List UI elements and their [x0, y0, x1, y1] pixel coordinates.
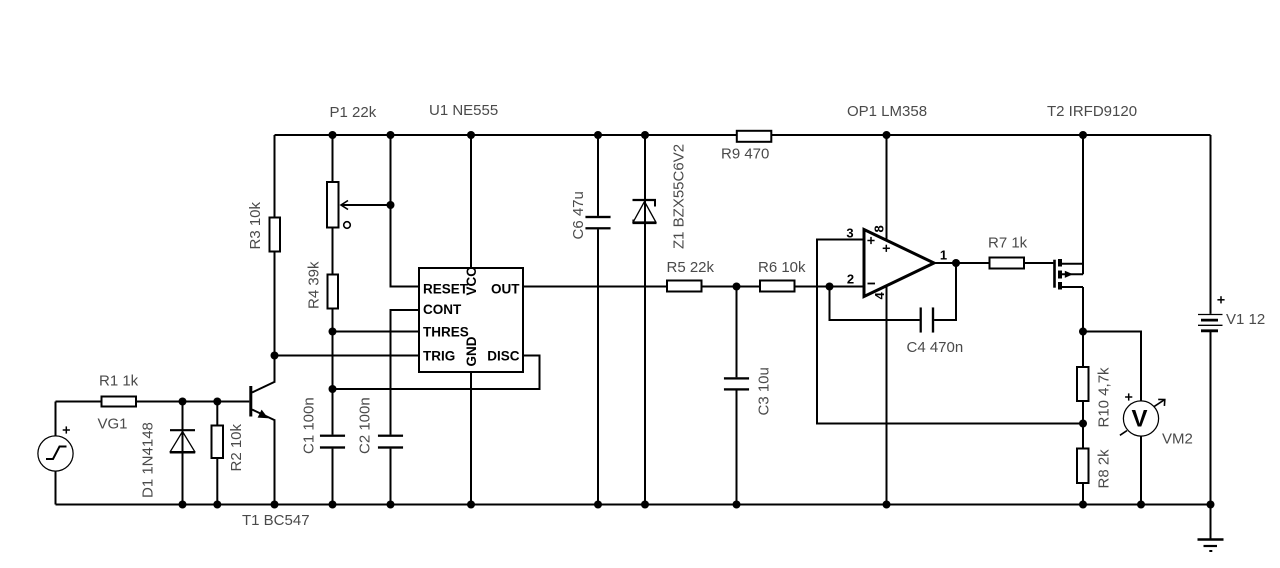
wire: top rail right segment (V+ net) [772, 134, 1211, 136]
svg-text:THRES: THRES [423, 325, 469, 340]
wire: Z1 column [644, 135, 646, 505]
resistor R4 [328, 275, 339, 309]
wire: R3 bottom to T1 collector, TRIG tap [274, 252, 276, 382]
svg-text:D1 1N4148: D1 1N4148 [140, 422, 157, 498]
junction VCC / rail [467, 131, 475, 139]
wire: P1 top to rail [332, 135, 334, 182]
wire: VCC pin to rail [470, 135, 472, 268]
wire: VG1 to R1 [56, 401, 102, 403]
svg-text:R4 39k: R4 39k [306, 261, 323, 309]
svg-text:C1 100n: C1 100n [301, 397, 318, 454]
wire: bottom rail (ground net) [56, 504, 1211, 506]
wire: op-amp supply column pin8/pin4 [886, 135, 888, 505]
capacitor C2 [378, 435, 403, 437]
wire: battery bottom stem [1210, 332, 1212, 505]
capacitor C4 [920, 308, 922, 333]
potentiometer P1 [327, 182, 339, 228]
svg-text:1: 1 [940, 248, 947, 263]
wire: ground stem [1210, 505, 1212, 540]
wire: P1 wiper line [342, 204, 391, 206]
capacitor C1 [320, 435, 345, 437]
svg-text:R5 22k: R5 22k [667, 259, 715, 276]
junction C1 / ground rail [329, 501, 337, 509]
svg-text:R2 10k: R2 10k [228, 423, 245, 471]
wire: C4 to output node [934, 263, 956, 320]
junction T1 emitter / ground rail [271, 501, 279, 509]
wire: RESET column from rail [391, 135, 420, 287]
svg-text:VG1: VG1 [98, 416, 128, 433]
wire: C3 vertical bottom [736, 390, 738, 505]
junction R10 / R8 / divider tap [1079, 420, 1087, 428]
junction wiper / RESET column [387, 201, 395, 209]
junction pin2 / feedback [826, 283, 834, 291]
zener diode Z1 [633, 199, 657, 201]
wire: GND pin to ground rail [470, 372, 472, 505]
wire: feedback from pin 2 through C4 [830, 287, 920, 321]
resistor R2 [212, 426, 224, 459]
wire: non-inverting input to divider tap [817, 240, 1083, 424]
svg-text:R10 4,7k: R10 4,7k [1096, 367, 1113, 428]
junction C2 / ground rail [387, 501, 395, 509]
junction output / feedback [952, 259, 960, 267]
svg-text:R6 10k: R6 10k [758, 259, 806, 276]
voltage source VG1 [38, 436, 73, 471]
svg-text:DISC: DISC [487, 349, 520, 364]
voltmeter VM2 [1123, 401, 1158, 436]
capacitor C6 [586, 216, 611, 218]
wire: R10 to R8 node [1082, 402, 1084, 449]
junction op-amp supply / rail [883, 131, 891, 139]
svg-text:C6 47u: C6 47u [570, 191, 587, 239]
wire: op-amp output to R7 [934, 262, 989, 264]
junction P1 top / rail [329, 131, 337, 139]
svg-text:2: 2 [847, 272, 854, 287]
transistor T2 IRFD9120 [1053, 260, 1056, 288]
wire: T2 source to rail [1082, 135, 1084, 274]
junction T2 source / rail [1079, 131, 1087, 139]
junction C3 / ground rail [733, 501, 741, 509]
ground [1198, 538, 1224, 541]
junction THRES / R4 [329, 328, 337, 336]
wire: T1 emitter to ground rail [274, 421, 276, 505]
wire: D1 branch vertical [182, 402, 184, 505]
wire: C3 vertical top [736, 287, 738, 378]
wire: C2 bottom to ground rail [390, 449, 392, 505]
svg-text:V: V [1131, 406, 1147, 433]
wire: R3 top to rail [274, 135, 276, 217]
resistor R9 [737, 131, 772, 142]
svg-text:VM2: VM2 [1162, 431, 1193, 448]
svg-text:OP1 LM358: OP1 LM358 [847, 103, 927, 120]
P1 wiper arrow [341, 201, 348, 210]
wire: VG1 bottom stem [55, 471, 57, 505]
svg-text:T1 BC547: T1 BC547 [242, 512, 310, 529]
junction C6 / rail [594, 131, 602, 139]
wire: T2 drain down to divider [1082, 287, 1084, 367]
svg-text:Z1 BZX55C6V2: Z1 BZX55C6V2 [671, 144, 688, 249]
svg-text:RESET: RESET [423, 282, 469, 297]
P1 rotation marker [344, 222, 351, 229]
transistor T1 BC547 [249, 386, 252, 417]
junction C6 / ground rail [594, 501, 602, 509]
svg-text:4: 4 [872, 292, 887, 300]
wire: battery top stem [1210, 135, 1212, 314]
svg-text:R3 10k: R3 10k [247, 201, 264, 249]
junction battery / ground rail [1207, 501, 1215, 509]
junction D1 / ground rail [179, 501, 187, 509]
op-amp OP1 LM358 [864, 230, 934, 297]
wire: C6 column top [597, 135, 599, 216]
svg-text:R9 470: R9 470 [721, 146, 769, 163]
battery V1 [1198, 314, 1223, 316]
resistor R3 [270, 218, 281, 252]
junction D1 / base wire [179, 398, 187, 406]
junction Z1 / ground rail [641, 501, 649, 509]
junction op-amp pin4 / ground rail [883, 501, 891, 509]
wire: CONT line down to C2 [391, 310, 420, 435]
diode D1 [170, 429, 195, 431]
junction R8 / ground rail [1079, 501, 1087, 509]
wire: C6 column bottom [597, 229, 599, 504]
svg-text:C3 10u: C3 10u [756, 367, 773, 415]
wire: R7 to T2 gate [1025, 262, 1053, 264]
svg-text:R7 1k: R7 1k [988, 235, 1028, 252]
svg-text:R8 2k: R8 2k [1096, 449, 1113, 489]
wire: R8 to ground rail [1082, 484, 1084, 505]
junction VM2 / ground rail [1137, 501, 1145, 509]
wire: R4 to THRES/DISC/C1 column [332, 309, 334, 435]
svg-text:TRIG: TRIG [423, 349, 455, 364]
svg-text:OUT: OUT [491, 282, 520, 297]
op-amp plus input marker [867, 240, 874, 242]
wire: drain node to VM2 [1083, 332, 1141, 402]
wire: P1 to R4 [332, 228, 334, 274]
wire: VG1 top stem [55, 402, 57, 437]
svg-text:P1 22k: P1 22k [330, 104, 377, 121]
wire: R6 to op-amp inverting input [795, 286, 864, 288]
junction DISC / C1 [329, 385, 337, 393]
junction Z1 / rail [641, 131, 649, 139]
wire: VM2 to ground rail [1140, 436, 1142, 505]
wire: C1 bottom to ground rail [332, 449, 334, 505]
svg-text:3: 3 [846, 226, 853, 241]
IC U1 NE555 body [419, 268, 523, 372]
wire: OUT pin to R5 [523, 286, 667, 288]
resistor R10 [1077, 367, 1089, 401]
wire: THRES line [333, 331, 420, 333]
resistor R6 [760, 281, 795, 292]
svg-text:C4 470n: C4 470n [907, 339, 964, 356]
svg-text:GND: GND [464, 336, 479, 366]
junction R5 / R6 / C3 [733, 283, 741, 291]
svg-text:C2 100n: C2 100n [357, 397, 374, 454]
wire: top rail left segment (VCC 6V2 net) [275, 134, 737, 136]
wire: TRIG line [275, 355, 420, 357]
junction GND pin / ground rail [467, 501, 475, 509]
wire: R2 branch vertical [216, 402, 218, 426]
wire: DISC return to C1 node [333, 356, 540, 390]
capacitor C3 [724, 377, 749, 379]
svg-text:CONT: CONT [423, 302, 462, 317]
svg-text:T2 IRFD9120: T2 IRFD9120 [1047, 103, 1137, 120]
resistor R7 [990, 258, 1025, 269]
op-amp minus input marker [868, 283, 876, 285]
svg-text:8: 8 [872, 225, 887, 232]
junction RESET column / rail [387, 131, 395, 139]
junction R2 / base wire [213, 398, 221, 406]
resistor R8 [1077, 449, 1089, 484]
junction R2 / ground rail [213, 501, 221, 509]
svg-text:VCC: VCC [464, 267, 479, 296]
junction TRIG / collector [271, 352, 279, 360]
resistor R5 [667, 281, 702, 292]
svg-text:R1 1k: R1 1k [99, 373, 139, 390]
op-amp supply plus marker [883, 247, 890, 249]
junction drain / VM2 [1079, 328, 1087, 336]
svg-text:V1 12: V1 12 [1226, 311, 1265, 328]
wire: R5 to R6 with C3 tap [702, 286, 760, 288]
resistor R1 [102, 397, 137, 407]
wire: R1 to T1 base [137, 401, 250, 403]
svg-text:U1 NE555: U1 NE555 [429, 102, 498, 119]
